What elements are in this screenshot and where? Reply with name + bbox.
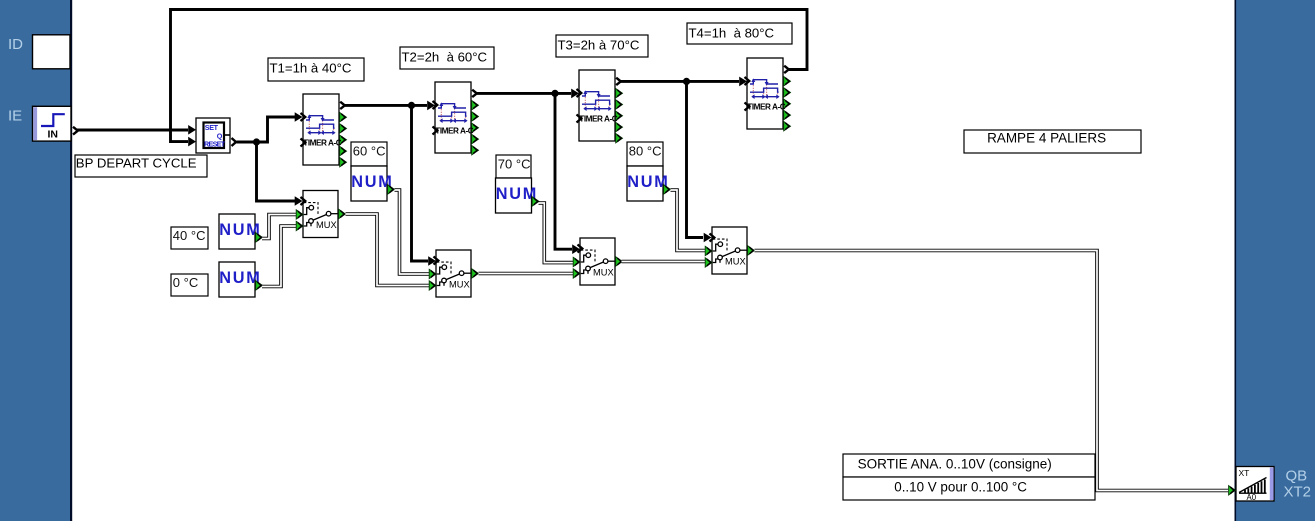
svg-text:T2=2h à 60°C: T2=2h à 60°C <box>402 49 488 64</box>
mux M1 <box>296 191 345 238</box>
label 0..10V <box>843 477 1095 500</box>
wire N3 to MUX3 select <box>555 93 580 254</box>
label BP DEPART CYCLE <box>75 155 207 177</box>
wire K70 to MUX3 in1 <box>539 203 574 263</box>
timer T2 <box>433 82 479 155</box>
label SORTIE ANA <box>843 454 1095 477</box>
input IE (BP depart cycle) <box>8 106 78 141</box>
svg-text:BP DEPART CYCLE: BP DEPART CYCLE <box>76 155 197 170</box>
latch U1 SET/RESET <box>196 118 236 153</box>
wire K60 to MUX2 in1 <box>395 190 430 274</box>
constant NUM K40 <box>219 214 263 249</box>
wire T1 out to node N2 and TIMER2 input <box>345 101 435 111</box>
label T1 <box>268 58 364 81</box>
label 60C <box>351 142 387 166</box>
wire N1 to MUX1 select <box>257 142 303 206</box>
svg-text:60 °C: 60 °C <box>353 143 386 158</box>
svg-text:XT: XT <box>1239 468 1250 478</box>
node N1 junction <box>253 138 260 145</box>
svg-text:0 °C: 0 °C <box>173 275 198 290</box>
constant NUM K70 <box>496 178 540 213</box>
mux M2 <box>429 250 478 297</box>
label 40C <box>171 227 208 249</box>
svg-text:40 °C: 40 °C <box>173 228 206 243</box>
wire T3 out to node N4 and TIMER4 input <box>621 77 747 87</box>
wire feedback T4 out to RESET input <box>171 10 808 147</box>
wire M3 out to MUX4 in2 <box>622 260 706 264</box>
svg-text:IE: IE <box>8 108 22 125</box>
label 0C <box>171 274 208 296</box>
constant NUM K80 <box>627 166 671 201</box>
svg-text:T3=2h à 70°C: T3=2h à 70°C <box>558 37 640 52</box>
svg-text:SORTIE ANA. 0..10V (consigne): SORTIE ANA. 0..10V (consigne) <box>858 456 1052 471</box>
svg-text:T1=1h à 40°C: T1=1h à 40°C <box>270 60 352 75</box>
node N2 junction <box>408 102 415 109</box>
label T4 <box>687 23 792 44</box>
wire SET out to node N1 <box>237 141 257 144</box>
wire M2 out to MUX3 in2 <box>479 272 574 276</box>
wire IE to SET input <box>77 125 196 135</box>
label 70C <box>496 155 531 178</box>
node N4 junction <box>683 78 690 85</box>
input ID <box>8 35 70 69</box>
constant NUM K60 <box>351 166 395 201</box>
wire N4 to MUX4 select <box>687 81 712 242</box>
label T3 <box>556 35 648 57</box>
right rail background <box>1235 0 1315 521</box>
svg-text:RAMPE 4 PALIERS: RAMPE 4 PALIERS <box>987 130 1106 145</box>
svg-text:80 °C: 80 °C <box>629 143 662 158</box>
output labels QB XT2 <box>1284 468 1312 501</box>
wire K0 to MUX1 in2 <box>262 226 296 287</box>
wire N1 to TIMER1 input <box>257 112 303 142</box>
mux M4 <box>705 227 754 274</box>
output XT2 analog block <box>1229 467 1274 503</box>
node N3 junction <box>551 90 558 97</box>
label 80C <box>627 142 663 166</box>
label T2 <box>400 47 494 69</box>
svg-text:T4=1h à 80°C: T4=1h à 80°C <box>689 25 775 40</box>
svg-text:RESET: RESET <box>204 139 226 148</box>
svg-text:ID: ID <box>8 36 23 53</box>
svg-text:0..10 V pour 0..100 °C: 0..10 V pour 0..100 °C <box>894 479 1027 494</box>
wire T2 out to node N3 and TIMER3 input <box>477 89 579 99</box>
timer T4 <box>745 58 791 131</box>
svg-text:XT2: XT2 <box>1284 483 1312 500</box>
left rail background <box>0 0 72 521</box>
constant NUM K0 <box>219 262 263 297</box>
wire M4 out to output XT2 <box>755 251 1229 491</box>
mux M3 <box>573 238 622 285</box>
wire K80 to MUX4 in1 <box>671 190 706 251</box>
wire N2 to MUX2 select <box>412 105 437 265</box>
wire M1 out to MUX2 in2 <box>346 214 430 286</box>
timer T1 <box>301 94 347 167</box>
timer T3 <box>577 70 623 143</box>
svg-text:A0: A0 <box>1247 493 1257 502</box>
wire K40 to MUX1 in1 <box>262 215 296 239</box>
svg-text:QB: QB <box>1286 468 1308 485</box>
label RAMPE 4 PALIERS <box>964 130 1141 153</box>
svg-text:IN: IN <box>48 128 59 140</box>
svg-text:70 °C: 70 °C <box>498 156 531 171</box>
